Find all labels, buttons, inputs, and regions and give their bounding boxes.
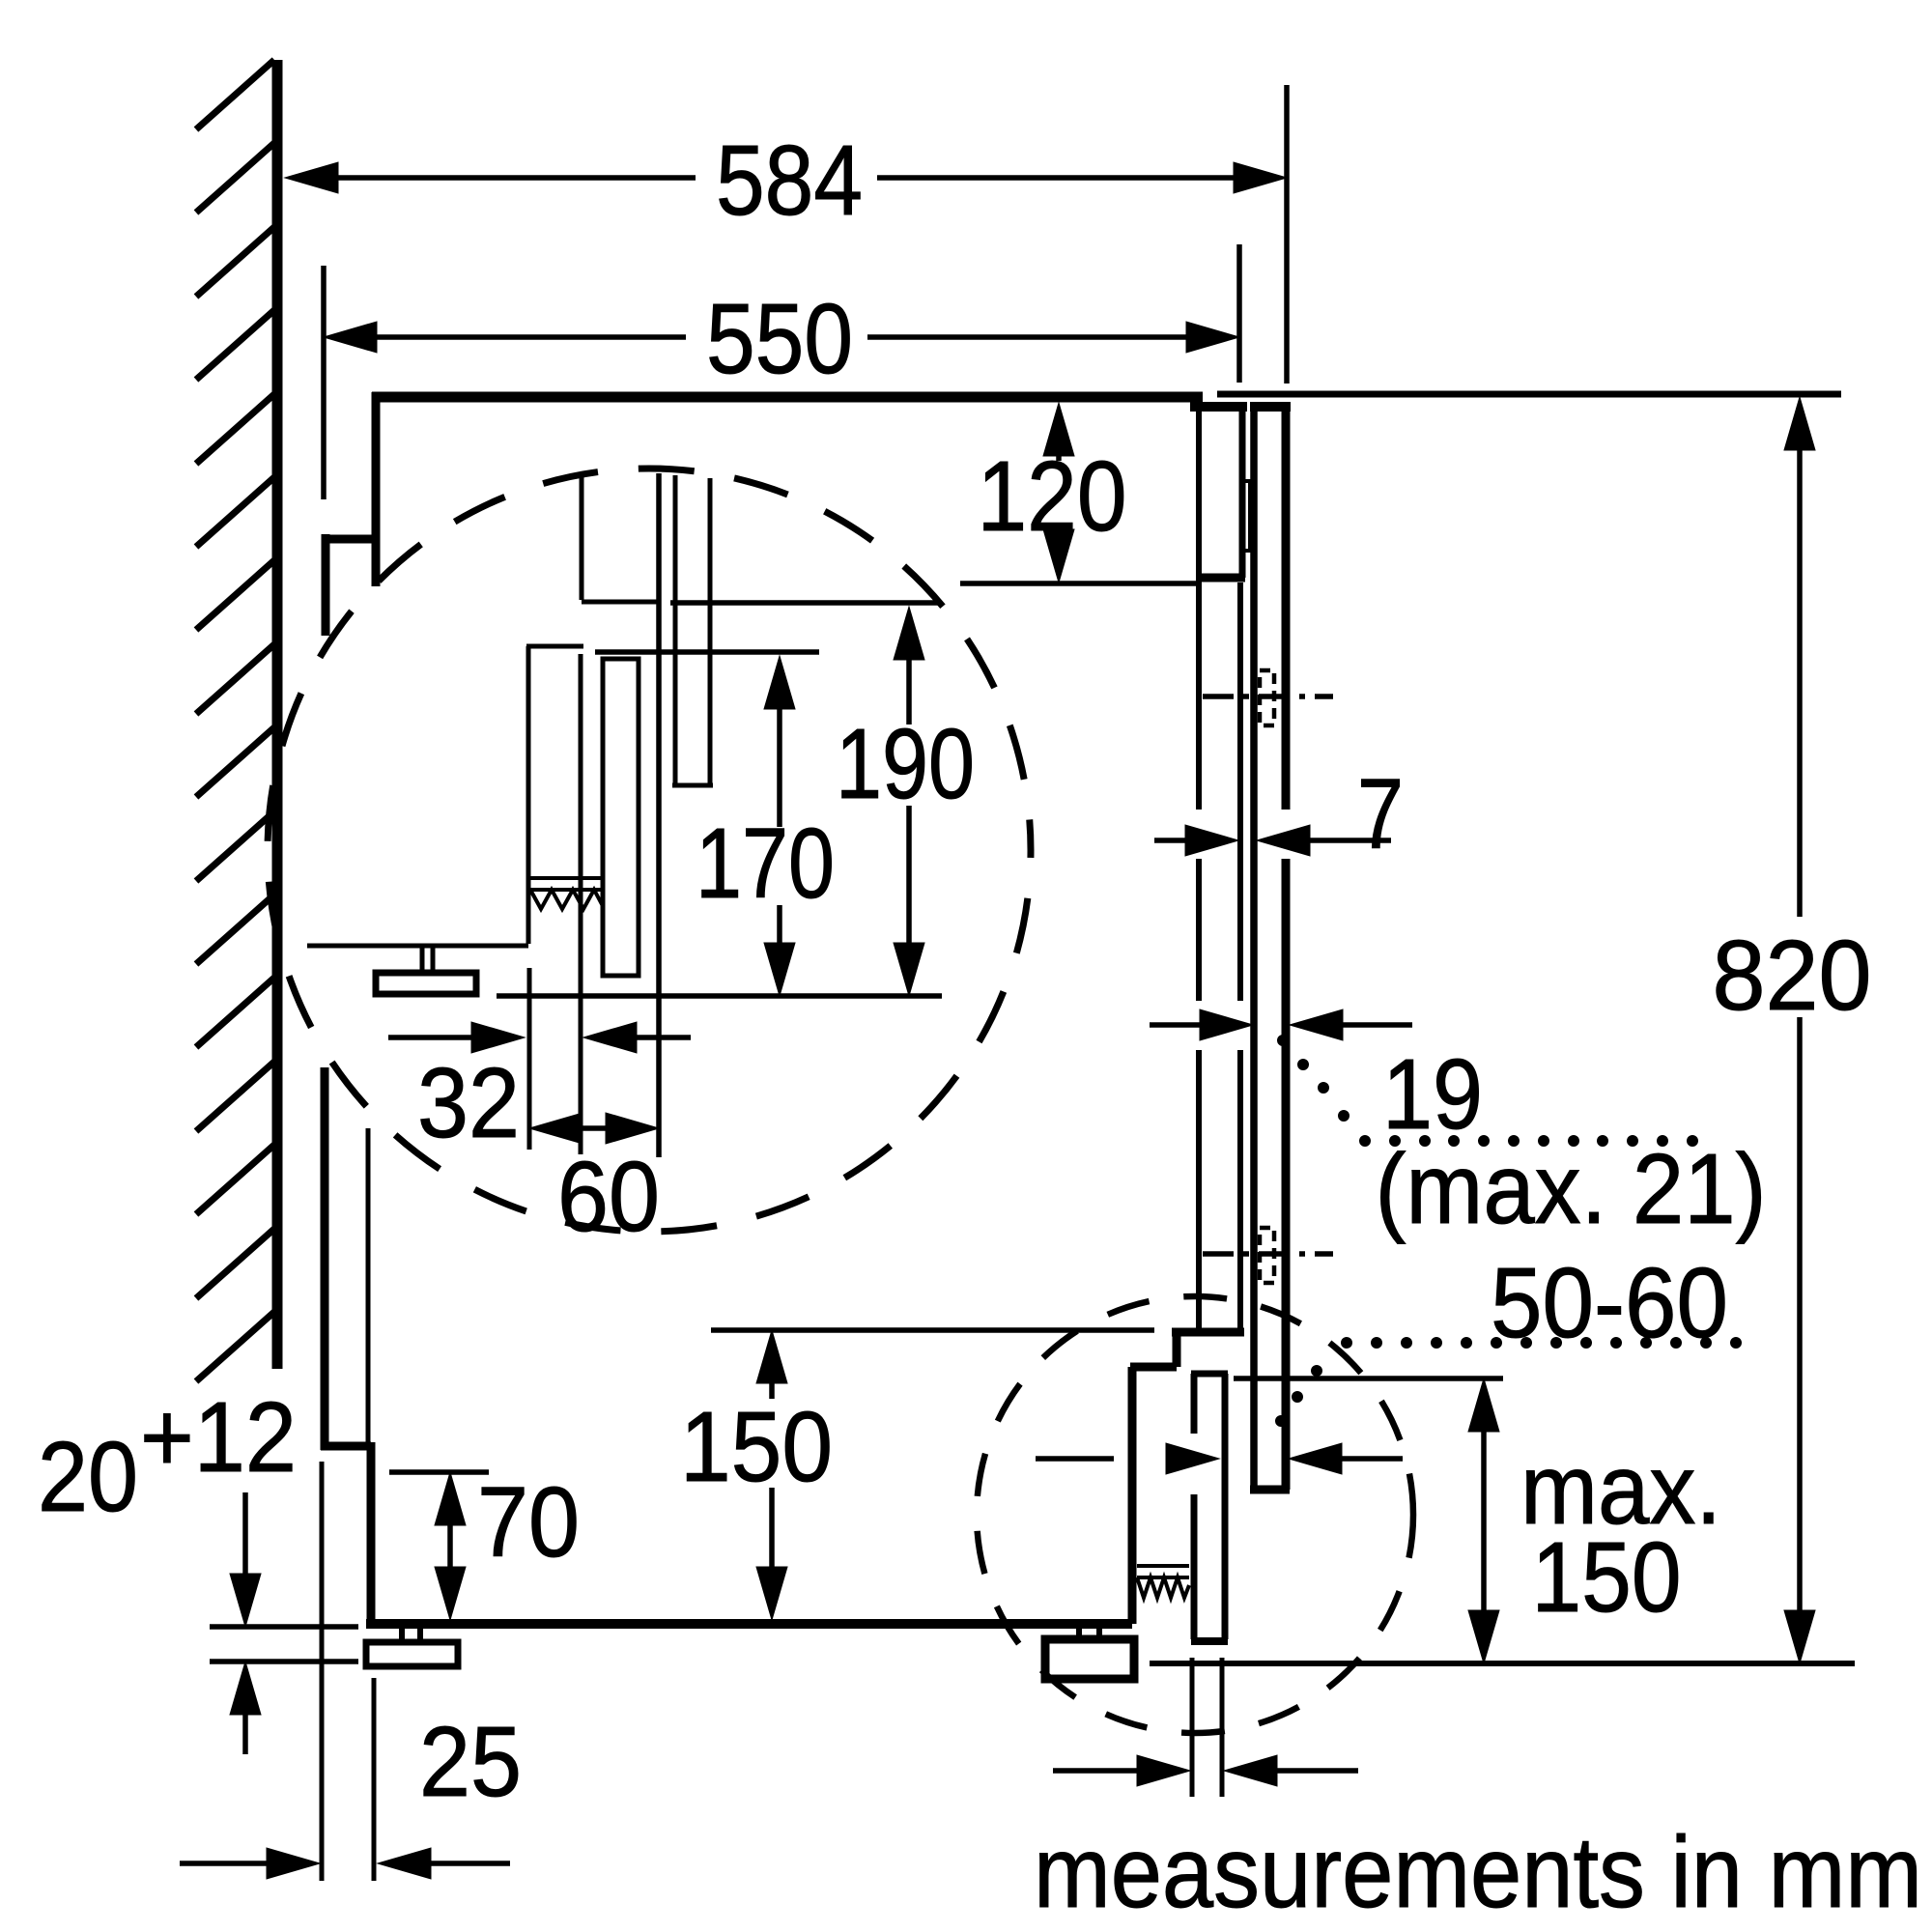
detail corner horizontal [582, 600, 658, 605]
reference line bottom (170/190) [497, 993, 942, 999]
label 150 right [1532, 1521, 1682, 1633]
dimension 190 [894, 607, 924, 996]
reference line upper left [210, 1624, 358, 1630]
machine top panel [372, 392, 1203, 403]
plinth board extension lines [1192, 1658, 1222, 1797]
door swing circle (dashed) [977, 1296, 1413, 1733]
label 7 [1357, 758, 1404, 869]
svg-text:32: 32 [417, 1047, 520, 1158]
label 150 [680, 1391, 833, 1502]
label 19 [1382, 1038, 1483, 1150]
svg-text:60: 60 [557, 1141, 660, 1252]
detail long vertical [656, 473, 662, 1157]
appliance door top cap [1190, 402, 1247, 412]
leader dots 50-60 [1276, 1338, 1742, 1427]
svg-text:70: 70 [477, 1466, 580, 1577]
dimension 150 [756, 1330, 787, 1620]
caption measurements in mm [1034, 1816, 1922, 1929]
right foot [1045, 1629, 1134, 1679]
machine bottom panel [366, 1619, 1132, 1629]
machine front edge [1196, 407, 1202, 1329]
label max. [1520, 1434, 1721, 1545]
dimension 550 arrows and line [324, 322, 1239, 353]
hinge 2 centerline [1203, 1251, 1333, 1257]
svg-text:584: 584 [716, 125, 863, 236]
label 32 [417, 1047, 520, 1158]
dispenser inner rect [603, 659, 639, 976]
svg-text:150: 150 [680, 1391, 833, 1502]
dimension 19 [1150, 1009, 1412, 1040]
reference line max150 [1234, 1376, 1503, 1381]
appliance door bottom cap [1199, 574, 1245, 582]
dimension 25 extension line right [372, 1678, 377, 1881]
label (max. 21) [1376, 1133, 1767, 1244]
machine rear edge lower [321, 1067, 329, 1450]
label 60 [557, 1141, 660, 1252]
dimension 50-60 [1036, 1443, 1403, 1474]
hinge 1 cup [1260, 670, 1274, 725]
appliance door face upper [1239, 412, 1246, 578]
dimension 20+12 [230, 1492, 261, 1754]
svg-text:20: 20 [38, 1421, 138, 1532]
dimension 60 [529, 1113, 659, 1144]
wall face line [272, 60, 283, 1369]
hinge 2 cup [1260, 1228, 1274, 1283]
dimension 70 [435, 1472, 466, 1620]
svg-text:7: 7 [1357, 758, 1404, 869]
left foot [366, 1629, 458, 1666]
reference line 170 top [595, 649, 819, 655]
detail vertical line a [580, 477, 584, 600]
machine rear bottom step [321, 1442, 371, 1624]
machine rear edge upper [372, 392, 381, 586]
dimension 584 extension line (door front) [1284, 85, 1290, 384]
furniture panel front face [1282, 412, 1291, 1490]
label 584 [716, 125, 863, 236]
svg-text:820: 820 [1713, 920, 1872, 1031]
label 550 [706, 283, 853, 394]
plinth serration [1137, 1566, 1189, 1598]
dimension 7 [1154, 825, 1391, 856]
appliance door button [1242, 481, 1250, 551]
dimension 584 arrows and line [285, 162, 1287, 193]
dimension max 150 [1468, 1378, 1499, 1663]
machine rear step connector [322, 535, 376, 544]
dimension 25 [180, 1848, 510, 1879]
svg-text:+12: +12 [140, 1381, 297, 1492]
drum circle (dashed) [268, 469, 1031, 1232]
reference line 120 bottom [960, 581, 1199, 586]
svg-text:120: 120 [978, 440, 1127, 552]
label 25 [419, 1706, 522, 1817]
label +12 [140, 1381, 297, 1492]
svg-text:550: 550 [706, 283, 853, 394]
label 820 [1713, 920, 1872, 1031]
wall hatching [196, 60, 274, 1381]
furniture panel top cap [1250, 402, 1291, 412]
plinth board [1191, 1374, 1228, 1641]
dispenser serration [530, 878, 603, 909]
svg-text:25: 25 [419, 1706, 522, 1817]
dispenser hose [579, 654, 583, 1154]
reference line 70 [389, 1469, 489, 1475]
dimension 32 extension line [527, 968, 532, 1150]
label 50-60 [1491, 1247, 1728, 1358]
dimension 170 [764, 656, 795, 996]
svg-text:150: 150 [1532, 1521, 1682, 1633]
dispenser housing [526, 646, 583, 944]
label 190 [836, 708, 975, 819]
svg-text:measurements in mm: measurements in mm [1034, 1816, 1922, 1929]
svg-text:170: 170 [696, 808, 835, 919]
worktop underside line [1217, 391, 1841, 398]
dimension 120 [1043, 403, 1074, 582]
dimension 820 [1784, 397, 1815, 1663]
appliance door face lower [1237, 582, 1243, 1329]
label 70 [477, 1466, 580, 1577]
machine rear inner line [366, 1128, 371, 1446]
dimension 550 extension line left [321, 266, 327, 499]
detail tube [672, 475, 713, 785]
plinth step [1130, 1332, 1244, 1624]
furniture panel bottom cap [1250, 1486, 1290, 1494]
svg-text:190: 190 [836, 708, 975, 819]
reference line 190 top [670, 600, 938, 606]
label 170 [696, 808, 835, 919]
dimension 32 [388, 1022, 691, 1053]
drum support tee [307, 946, 528, 994]
reference line lower left [210, 1659, 358, 1664]
reference line 150 [711, 1327, 1154, 1333]
floor line [1150, 1661, 1855, 1666]
svg-text:50-60: 50-60 [1491, 1247, 1728, 1358]
dimension 550 extension line right [1236, 244, 1242, 383]
label 20 [38, 1421, 138, 1532]
furniture panel rear face [1250, 412, 1258, 1490]
plinth board dimension [1053, 1755, 1358, 1786]
svg-text:(max. 21): (max. 21) [1376, 1133, 1767, 1244]
dimension 25 extension line left [320, 1462, 325, 1881]
machine rear edge offset [322, 534, 330, 636]
label 120 [978, 440, 1127, 552]
hinge 1 centerline [1203, 694, 1333, 699]
leader dots 19 [1278, 1036, 1698, 1147]
